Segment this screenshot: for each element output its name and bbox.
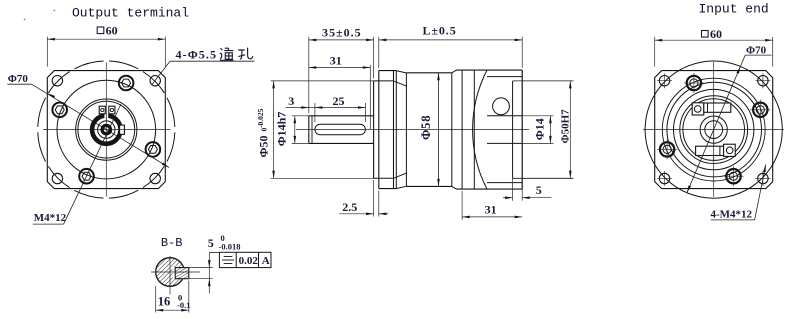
leader to corner hole: [152, 61, 170, 84]
arrow lower: [687, 185, 691, 192]
svg-text:16: 16: [158, 295, 171, 309]
hex screw hexagon at 113deg: [82, 172, 91, 180]
clamp slot bottom line: [487, 182, 522, 184]
input inner line: [473, 70, 475, 189]
ext recess bottom down: [512, 178, 514, 200]
center hub small circle: [102, 125, 110, 133]
phi70 underline: [745, 54, 771, 56]
keyway slot clearance: [173, 267, 190, 279]
ext key bottom: [189, 278, 213, 280]
phi70 leader arrow lower-right: [162, 163, 169, 168]
svg-text:-0.018: -0.018: [219, 241, 241, 251]
screw outer at -113deg: [687, 76, 701, 90]
bearing housing double circle: [76, 99, 137, 160]
speckle dots: [24, 19, 26, 21]
crosshair horizontal: [643, 129, 784, 131]
svg-text:60: 60: [106, 23, 118, 37]
input bottom edge: [457, 188, 523, 190]
M4*12 leader through bottom-left hex to center: [64, 104, 121, 224]
centerline redraw over keyway notch: [117, 129, 127, 131]
phi48 hub circle: [667, 82, 762, 177]
square-60 dimension (right view): [654, 37, 656, 67]
pilot recess bottom: [512, 81, 514, 178]
ext pilot bottom left: [271, 177, 374, 179]
keyway notch on shaft: [120, 125, 125, 134]
svg-text:Input end: Input end: [699, 2, 769, 17]
square symbol + 60 text: [97, 27, 104, 34]
key cross-section (hatched): [175, 268, 189, 279]
ext pilot face down: [373, 180, 375, 217]
leader arrow: [763, 165, 766, 173]
svg-text:5: 5: [536, 183, 542, 197]
ext line left: [46, 37, 48, 67]
pilot face: [373, 81, 375, 178]
phi14 dim: [549, 116, 551, 144]
svg-text:-0.1: -0.1: [177, 300, 190, 310]
shaft bore circle: [98, 121, 115, 138]
clamp top: screw head square: [692, 103, 704, 115]
dim line vertical: [208, 252, 210, 293]
shaft section circle (hatched): [156, 258, 185, 287]
phi70 bolt circle (dashed): [38, 61, 175, 198]
vertical centerline redraw over clamps: [713, 98, 715, 160]
hex screw hexagon at 23deg: [148, 146, 157, 154]
shaft chamfer line: [311, 116, 313, 144]
collar line: [395, 71, 397, 189]
phi70 leader (right view): [687, 55, 745, 193]
bolt circle dash-dot: [662, 78, 765, 181]
body-to-input chamfer: [452, 70, 457, 73]
small center circle: [705, 121, 723, 139]
shaft bottom: [309, 142, 374, 144]
flange-to-body chamfer top: [396, 71, 406, 73]
hex screw outer circle at 203deg: [52, 103, 67, 118]
left view square flange outline with chamfered corners: [47, 71, 165, 189]
arrow upper: [736, 66, 740, 73]
hex screw outer circle at 113deg: [79, 169, 94, 184]
svg-text:31: 31: [485, 203, 497, 217]
ext key top: [189, 267, 213, 269]
hanzi kong (hole): [238, 48, 253, 60]
svg-text:Φ50: Φ50: [256, 136, 270, 158]
leader through corner hole: [755, 165, 766, 220]
circlip ear right: [109, 106, 115, 114]
phi14 input bore: [487, 115, 522, 117]
svg-text:Φ14h7: Φ14h7: [274, 112, 288, 147]
phi70 circle (solid): [645, 61, 782, 198]
corner through holes 4-phi5.5: [52, 76, 62, 86]
ext flange face up: [378, 37, 380, 68]
clamp screw circle (side): [493, 98, 510, 115]
phi14 ext lines: [522, 115, 553, 117]
svg-text:A: A: [262, 255, 270, 267]
dim 25 (keyway length): [315, 107, 366, 109]
input face: [521, 70, 523, 189]
curved clamp surface arc: [473, 70, 487, 189]
svg-text:-0.025: -0.025: [256, 108, 265, 128]
screw inner at -23deg: [756, 106, 764, 114]
ext shaft bottom left: [292, 142, 309, 144]
svg-text:M4*12: M4*12: [34, 212, 67, 224]
inner double circle: [680, 96, 748, 164]
neck cone bottom: [394, 173, 407, 178]
underline of 4-phi5.5 label: [170, 60, 255, 62]
body front joint: [405, 73, 407, 187]
horizontal centerline: [296, 129, 529, 131]
hex screw hexagon at 203deg: [55, 106, 64, 114]
center crosshair horizontal: [43, 129, 171, 131]
ext pilot face up: [373, 37, 375, 79]
svg-text:Φ50H7: Φ50H7: [559, 109, 571, 144]
svg-text:4-M4*12: 4-M4*12: [711, 208, 753, 220]
svg-text:Φ14: Φ14: [533, 118, 547, 140]
svg-text:0.02: 0.02: [239, 255, 259, 267]
svg-text:25: 25: [333, 94, 345, 108]
flange bottom edge: [379, 188, 397, 190]
ext input joint down: [461, 191, 463, 220]
svg-text:31: 31: [330, 54, 342, 68]
phi50H7 recess edges + ext: [513, 80, 574, 82]
section crosshair: [151, 271, 200, 273]
screw outer at 67deg: [726, 169, 740, 183]
centerline redraw over circlip gap: [105, 104, 107, 121]
clamp top: slot rectangle: [704, 103, 731, 112]
symmetry symbol: [224, 256, 233, 258]
dim 16 0/-0.1: [155, 286, 157, 313]
ext input face up: [521, 37, 523, 68]
svg-text:B-B: B-B: [161, 236, 183, 250]
hex screw hexagon at -67deg: [122, 79, 131, 87]
svg-text:Φ70: Φ70: [8, 73, 29, 85]
hex screw outer circle at -67deg: [119, 76, 134, 91]
shaft end face: [308, 116, 310, 144]
clamp slot top line: [487, 76, 522, 78]
ext keyway end: [364, 103, 366, 122]
clamp bottom: screw head square: [724, 144, 736, 156]
ext line right: [164, 37, 166, 67]
body rear joint: [451, 73, 453, 187]
svg-text:3: 3: [288, 94, 294, 108]
ext pilot top left: [271, 80, 374, 82]
ext flange face down: [378, 191, 380, 217]
phi70 leader arrow upper-left: [48, 93, 55, 98]
flange-to-body chamfer bottom: [396, 186, 406, 188]
underline: [711, 219, 755, 221]
svg-text:2.5: 2.5: [342, 200, 357, 214]
center crosshair vertical: [105, 63, 107, 197]
ext keyway start: [314, 103, 316, 122]
flange back face: [393, 71, 395, 189]
phi58 dim (inside body): [438, 73, 440, 187]
svg-text:Φ58: Φ58: [419, 115, 433, 140]
clamp bottom: slot rectangle: [696, 146, 724, 155]
body bottom: [406, 185, 451, 187]
keyway slot (stadium): [315, 124, 366, 135]
ext shaft top left: [292, 115, 309, 117]
phi40 clamp hub circle: [674, 89, 754, 169]
input bore circle: [700, 116, 727, 143]
neck cone top: [394, 81, 407, 86]
hanzi tong (through): [220, 48, 234, 60]
flange front face: [378, 71, 380, 189]
FCF leader: [209, 251, 219, 253]
svg-text:35±0.5: 35±0.5: [322, 26, 362, 40]
ext shaft end up: [308, 37, 310, 113]
screw inner at 157deg: [663, 145, 671, 153]
flange top edge: [379, 70, 397, 72]
ext shaft shoulder: [369, 65, 371, 129]
phi50 cylinder lines through flange: [374, 80, 394, 82]
svg-text:4-Φ5.5: 4-Φ5.5: [176, 48, 218, 62]
ext input face down: [521, 189, 523, 201]
svg-text:5: 5: [208, 236, 214, 250]
input joint line: [461, 70, 463, 189]
screw inner at -113deg: [690, 79, 698, 87]
circlip ear left: [99, 106, 105, 114]
screw inner at 67deg: [729, 172, 737, 180]
phi50H7 dim: [569, 81, 571, 178]
retaining ring (thick): [92, 115, 120, 143]
svg-text:Φ70: Φ70: [746, 45, 767, 57]
right view square flange outline with chamfered corners: [655, 71, 773, 189]
screw outer at 157deg: [660, 142, 674, 156]
circlip gap (white): [104, 106, 108, 118]
screw outer at -23deg: [753, 103, 767, 117]
dim line square60: [47, 38, 165, 40]
body top: [406, 72, 451, 74]
corner holes with center marks: [659, 76, 669, 86]
input top edge: [457, 69, 523, 71]
shaft top: [309, 115, 374, 117]
svg-text:L±0.5: L±0.5: [423, 24, 457, 38]
phi50 pilot circle: [57, 80, 156, 179]
dim 3 (keyway offset): [286, 107, 309, 109]
hex screw outer circle at 23deg: [146, 142, 161, 157]
svg-text:60: 60: [710, 27, 722, 41]
phi70 leader line (through center, both arrows): [32, 84, 170, 167]
crosshair vertical: [713, 62, 715, 197]
svg-text:Output terminal: Output terminal: [72, 5, 189, 20]
